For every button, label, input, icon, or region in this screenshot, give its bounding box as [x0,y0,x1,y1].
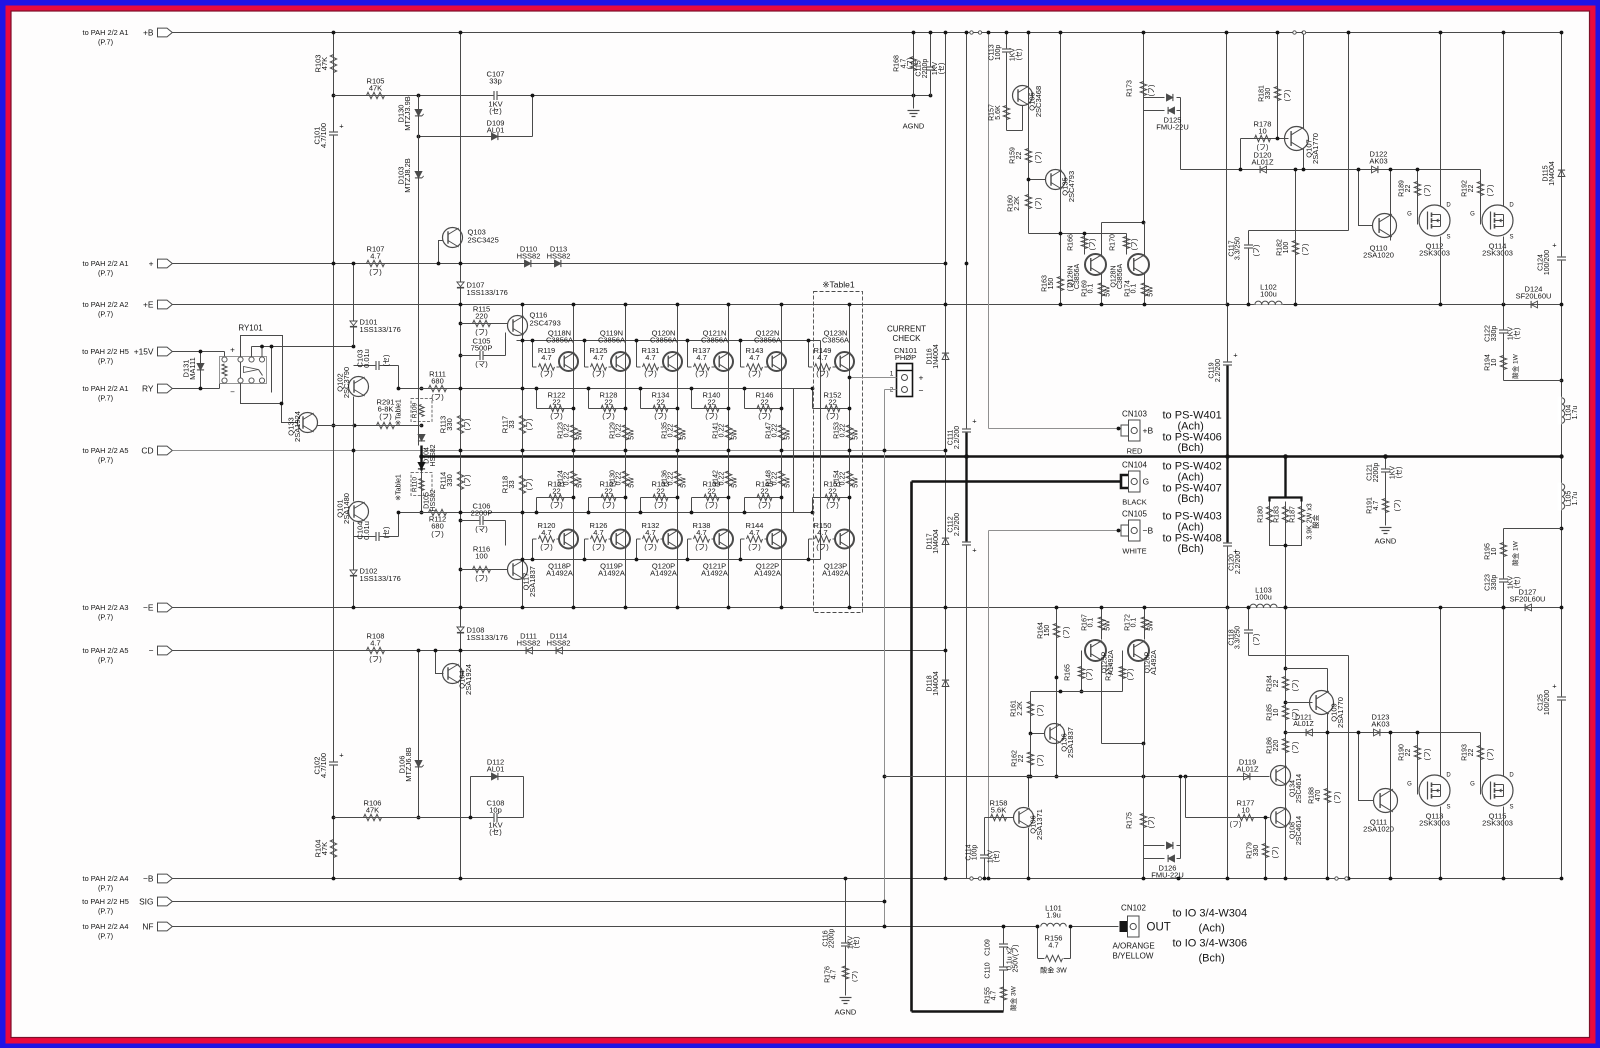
capacitor C124 [1538,241,1567,276]
svg-text:D: D [1509,203,1514,209]
svg-text:330p: 330p [1491,326,1498,342]
junction [1177,877,1181,881]
capacitor C106 [461,502,506,546]
capacitor C125 [1538,682,1567,716]
junction [535,511,539,515]
junction [780,496,784,500]
wire Q110 col [1390,170,1392,241]
svg-text:A/ORANGE: A/ORANGE [1113,942,1155,951]
resistor R155 [985,985,1018,1010]
svg-text:22: 22 [760,486,768,495]
wire C113 branch [1006,33,1008,131]
junction [469,816,473,820]
svg-text:33p: 33p [489,77,502,86]
svg-text:1.7u: 1.7u [1572,492,1579,506]
junction [1560,877,1564,881]
junction [280,402,284,406]
svg-text:2SA1770: 2SA1770 [1336,697,1345,728]
capacitor C119 [1209,351,1239,383]
table1 box [814,292,863,613]
junction [739,558,743,562]
junction [848,407,852,411]
svg-text:(フ): (フ) [1037,755,1045,767]
junction [459,31,463,35]
svg-text:2SC4793: 2SC4793 [1067,171,1076,202]
resistor R181 [1259,85,1292,102]
connector + to to PAH 2/2 A1 [83,259,173,278]
junction [912,94,916,98]
diode D102 [350,567,401,584]
resistor R140 [692,389,729,421]
wire Q111 col [1390,733,1392,816]
svg-text:酸金: 酸金 [1311,515,1320,529]
junction [420,511,424,515]
junction [739,339,743,343]
resistor R106 [364,799,382,821]
svg-text:AL01Z: AL01Z [1293,721,1314,728]
wire output column 4 [728,305,730,608]
wire -E rail [173,607,1562,609]
svg-text:+: + [1233,351,1238,360]
junction [332,262,336,266]
svg-text:−: − [230,388,235,397]
svg-text:NF: NF [142,922,153,932]
svg-text:470: 470 [1315,790,1322,802]
wire CN101 pin2 [885,389,897,391]
svg-text:R170: R170 [1110,234,1117,251]
junction [1347,31,1351,35]
resistor R113 [439,416,472,434]
resistor R137 [688,341,715,379]
wire R180 feed (thick) [1284,457,1286,499]
wire R173 long drop [1143,111,1145,223]
svg-text:2SA1020: 2SA1020 [1363,825,1394,834]
junction [332,877,336,881]
wire driver2 col [1028,33,1030,234]
resistor R147 [766,422,792,440]
svg-text:4.7: 4.7 [831,970,838,980]
junction [199,387,203,391]
ground AGND top [903,96,925,131]
junction [1559,454,1563,458]
svg-text:4.7: 4.7 [696,353,706,362]
junction [459,387,463,391]
svg-text:(フ): (フ) [369,655,382,664]
junction [1059,31,1063,35]
resistor R185 [1267,704,1300,721]
transistor Q118N [546,329,578,372]
svg-text:(P.7): (P.7) [98,38,113,47]
junction [635,339,639,343]
mosfet Q112 [1407,203,1451,258]
junction [1100,606,1104,610]
resistor R195 [1485,540,1520,565]
wire C104 rise [398,513,400,537]
resistor R166 [1068,232,1097,255]
svg-text:1N4004: 1N4004 [1549,161,1556,186]
svg-text:4.7: 4.7 [541,353,551,362]
svg-text:5W: 5W [681,477,688,488]
junction [1027,877,1031,881]
junction [270,345,274,349]
svg-text:S: S [1509,805,1513,811]
resistor R112 [429,509,447,538]
resistor R159 [1010,147,1043,164]
transistor Q118P [546,530,578,578]
junction [883,449,887,453]
svg-text:AL01Z: AL01Z [1236,765,1259,774]
svg-text:0.22: 0.22 [668,424,675,438]
junction [1142,31,1146,35]
wire CN105 riser [988,531,990,879]
svg-text:+E: +E [143,300,154,310]
wire output column 5 [781,305,783,608]
resistor R132 [637,521,664,560]
resistor R134 [641,389,678,421]
wire +B rail [173,32,1562,34]
svg-text:CD: CD [141,446,153,456]
connector CD to to PAH 2/2 A5 [83,446,173,465]
svg-text:AL01: AL01 [487,126,505,135]
junction [1389,877,1393,881]
svg-text:2.2/200: 2.2/200 [954,513,961,536]
junction [686,558,690,562]
diode D120 [1251,151,1274,174]
resistor R144 [741,521,768,560]
junction [1100,303,1104,307]
svg-text:(フ): (フ) [1272,847,1280,859]
svg-text:2200P: 2200P [471,509,493,518]
wire bias lower [421,471,423,513]
svg-text:2SA1371: 2SA1371 [1035,809,1044,840]
svg-text:10p: 10p [489,806,502,815]
diode D123 [1371,713,1389,737]
svg-text:A1492A: A1492A [701,569,728,578]
junction [420,424,424,428]
svg-text:(フ): (フ) [758,412,771,421]
svg-text:G: G [1407,212,1412,218]
wire diode column [945,33,947,879]
svg-text:C3856A: C3856A [701,336,728,345]
svg-text:to PAH 2/2 A5: to PAH 2/2 A5 [83,646,129,655]
wire emitter link N [517,340,821,342]
resistor R126 [585,521,612,560]
diode D127 [1510,588,1546,612]
connector +B to to PAH 2/2 A1 [83,28,173,47]
wire bias thick [420,446,422,471]
resistor R133 [641,480,678,513]
svg-text:1SS133/176: 1SS133/176 [467,633,508,642]
wire C119 column [1227,305,1229,608]
svg-text:A1492A: A1492A [754,569,781,578]
svg-text:(フ): (フ) [592,369,605,378]
label to PS-W401 [1163,410,1222,455]
transistor Q109 [1310,691,1346,728]
junction [521,303,525,307]
junction [583,558,587,562]
svg-text:C3856A: C3856A [1074,264,1081,290]
svg-text:G: G [1407,782,1412,788]
resistor R127 [589,480,626,513]
junction [1142,742,1146,746]
svg-text:0.01u: 0.01u [362,349,371,368]
svg-text:22: 22 [656,486,664,495]
svg-text:4.7: 4.7 [817,528,827,537]
transistor Q119N [598,329,630,372]
junction [1264,816,1268,820]
svg-text:(Bch): (Bch) [1199,953,1225,965]
wire - rail [173,650,946,652]
wire output column 3 [677,305,679,608]
diode D124 [1516,285,1552,309]
resistor R108 [367,632,385,664]
junction [531,94,535,98]
label A/ORANGE [1113,942,1155,961]
resistor R103 [314,55,337,73]
junction [811,511,815,515]
svg-text:C3856A: C3856A [650,336,677,345]
svg-text:4.7: 4.7 [696,528,706,537]
transistor Q116 [508,311,561,336]
wire driver base link top [1029,233,1127,235]
wire VAS upper [353,264,355,346]
svg-text:100u: 100u [1255,593,1272,602]
svg-text:5W: 5W [577,477,584,488]
svg-text:22: 22 [552,486,560,495]
svg-text:(フ): (フ) [1394,500,1402,512]
diode D109 [487,119,505,141]
resistor R138 [688,521,715,560]
diode D118 [927,671,950,696]
svg-text:33: 33 [507,420,516,428]
resistor R119 [533,341,560,379]
diode D121 [1293,715,1314,737]
svg-text:5.6K: 5.6K [991,806,1006,815]
diode D108 [457,626,508,643]
resistor R158 [985,799,1014,821]
junction [848,376,852,380]
svg-text:22: 22 [604,486,612,495]
svg-text:22: 22 [707,397,715,406]
svg-text:4.7: 4.7 [541,528,551,537]
svg-text:(フ): (フ) [369,268,382,277]
capacitor C114 [966,818,1001,879]
svg-text:※Table1: ※Table1 [396,474,403,501]
label table1 lower [396,474,403,501]
svg-text:2SC4614: 2SC4614 [1296,816,1303,845]
svg-text:2SK3003: 2SK3003 [1419,249,1450,258]
svg-text:22: 22 [656,397,664,406]
wire Q106 col [1028,777,1030,808]
wire Q113 source [1440,608,1442,776]
svg-text:(フ): (フ) [1424,185,1432,197]
wire NF/OUT [173,926,1038,928]
wire +15V [173,351,225,353]
svg-text:220: 220 [1273,740,1280,752]
svg-text:R165: R165 [1065,664,1072,681]
wire Q114 source [1503,237,1505,305]
svg-text:C3856A: C3856A [546,336,573,345]
junction [686,339,690,343]
resistor R148 [766,470,792,488]
svg-text:(フ): (フ) [1487,185,1495,197]
svg-text:A1492A: A1492A [822,569,849,578]
svg-text:(フ): (フ) [1037,705,1045,717]
junction [587,387,591,391]
svg-text:2SK3003: 2SK3003 [1482,819,1513,828]
svg-text:(フ): (フ) [475,328,488,337]
junction [1055,775,1059,779]
capacitor C107 [487,70,505,116]
svg-text:S: S [1446,805,1450,811]
wire driver base link bottom [1031,691,1123,693]
svg-text:(セ): (セ) [383,527,391,539]
wire Q109 collector drop [1327,669,1329,693]
svg-text:5W: 5W [629,429,636,440]
svg-text:5W: 5W [1105,620,1112,631]
svg-text:A1492A: A1492A [598,569,625,578]
wire Q111 base [1359,733,1374,801]
svg-text:−: − [149,646,154,656]
junction [780,303,784,307]
junction [1247,303,1251,307]
svg-text:(フ): (フ) [1089,239,1097,251]
junction [676,407,680,411]
svg-text:0.1: 0.1 [1088,618,1095,628]
wire Q103 base [439,241,444,264]
svg-text:(P.7): (P.7) [98,357,113,366]
svg-text:330: 330 [1253,845,1260,857]
junction [459,322,463,326]
junction [521,387,525,391]
svg-text:(フ): (フ) [379,412,392,421]
resistor R151 [813,480,850,513]
junction [1247,606,1251,610]
wire CN104 lead (thick) [912,480,1121,483]
mosfet Q114 [1470,203,1514,258]
transistor Q134 [1271,766,1303,804]
svg-text:(フ): (フ) [644,543,657,552]
svg-text:(フ): (フ) [705,501,718,510]
svg-text:to PAH 2/2 A2: to PAH 2/2 A2 [83,300,129,309]
wire right column [1561,33,1563,879]
junction [459,449,463,453]
junction [727,496,731,500]
junction [944,303,948,307]
svg-text:(フ): (フ) [1292,742,1300,754]
svg-text:2SC3425: 2SC3425 [468,236,499,245]
wire zener chain [418,96,420,446]
junction [1284,606,1288,610]
svg-text:(フ): (フ) [906,58,914,70]
capacitor C108 [471,799,524,837]
wire predriver col [522,305,524,608]
junction [987,31,991,35]
connector CN102 [1120,904,1171,938]
junction [1302,168,1306,172]
svg-text:4.7: 4.7 [370,252,380,261]
wire coil return [220,384,225,389]
junction [1284,731,1288,735]
wire relay contact stubs [252,347,272,393]
wire gate rail top [1181,169,1481,171]
transistor Q120P [650,530,682,578]
resistor R172 [1125,608,1155,640]
junction [676,496,680,500]
svg-text:22: 22 [828,486,836,495]
resistor R121 [537,480,574,513]
label table1 upper [396,399,403,426]
junction [1383,454,1388,459]
junction [572,303,576,307]
wire C111/C112 (thick) [965,431,967,546]
svg-text:4.7/100: 4.7/100 [319,123,328,148]
svg-text:(フ): (フ) [464,475,472,487]
resistor R165 [1065,651,1094,694]
wire C118 bottom [1249,655,1349,657]
transistor Q122P [754,530,786,578]
svg-text:R180: R180 [1258,506,1265,523]
svg-text:(セ): (セ) [489,828,502,837]
transistor Q105 [1013,86,1044,118]
junction [944,606,948,610]
label to PS-W403 [1163,511,1222,556]
junction [1059,690,1063,694]
svg-text:47K: 47K [369,84,382,93]
wire R178 tie [1240,139,1242,170]
wire R173 col [1143,33,1145,111]
wire R181 col [1277,33,1279,139]
svg-text:HSS82: HSS82 [547,252,571,261]
junction [531,558,535,562]
svg-text:(フ): (フ) [550,412,563,421]
wire Q136 base [1029,732,1045,736]
svg-text:(フ): (フ) [526,479,534,491]
svg-text:22: 22 [604,397,612,406]
junction [420,387,424,391]
wire driver emitter link top [1102,222,1145,224]
capacitor C121 [1367,463,1403,483]
resistor R182 [1277,170,1310,305]
wire vertical +B branch [333,33,335,879]
resistor R130 [610,470,636,488]
junction [727,407,731,411]
svg-text:(フ): (フ) [1131,239,1139,251]
junction [521,511,525,515]
wire + rail [173,263,946,265]
svg-text:A1492A: A1492A [1151,650,1158,675]
svg-text:(フ): (フ) [526,419,534,431]
svg-text:10: 10 [1258,127,1266,136]
svg-text:R166: R166 [1068,234,1075,251]
svg-text:C3856A: C3856A [1117,264,1124,290]
resistor R142 [713,470,739,488]
junction [572,407,576,411]
junction [635,558,639,562]
svg-text:C109: C109 [985,939,992,956]
junction [883,900,887,904]
mosfet Q113 [1407,773,1451,828]
svg-text:22: 22 [828,397,836,406]
connector −E to to PAH 2/2 A3 [83,603,173,622]
svg-text:100u: 100u [1260,290,1277,299]
resistor R173 [1127,80,1156,97]
relay RY101 [220,324,283,404]
junction [332,94,336,98]
jumper [978,31,981,34]
resistor R186 [1267,737,1300,754]
svg-text:−E: −E [143,603,154,613]
